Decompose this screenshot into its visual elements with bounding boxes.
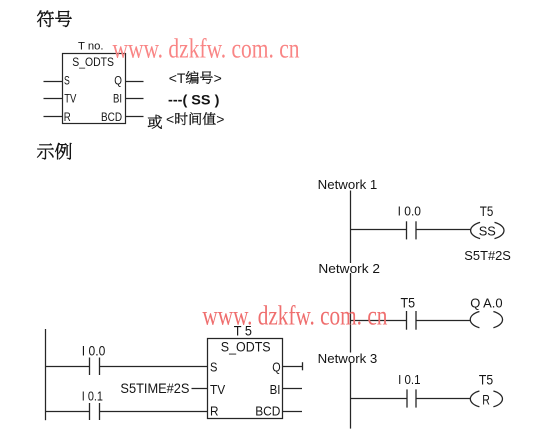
svg-text:S5TIME#2S: S5TIME#2S	[120, 381, 189, 396]
wire network3 rung left	[351, 398, 408, 400]
svg-text:>: >	[216, 111, 224, 127]
svg-text:<: <	[166, 111, 174, 127]
svg-text:BCD: BCD	[101, 110, 122, 124]
svg-text:Q: Q	[272, 360, 280, 375]
svg-text:I 0.1: I 0.1	[82, 389, 103, 404]
contact I0.0 (network1)	[406, 221, 408, 239]
wire rung to R input	[46, 411, 90, 413]
svg-text:TV: TV	[210, 382, 225, 397]
wire contact I0.0 to S pin	[100, 366, 208, 368]
svg-text:T5: T5	[401, 294, 416, 310]
wire network2 rung left	[351, 320, 407, 322]
svg-text:Q A.0: Q A.0	[470, 296, 502, 311]
timer block T5 S_ODTS (example)	[208, 339, 283, 419]
contact I0.1 (network3)	[406, 389, 408, 407]
wire BCD output stub	[126, 116, 144, 118]
svg-text:T5: T5	[480, 204, 494, 219]
coil R T5 (network3)	[470, 391, 479, 407]
svg-text:S: S	[64, 73, 70, 87]
contact I0.0 (example)	[89, 358, 91, 376]
svg-text:BI: BI	[270, 382, 281, 397]
coil SS T5 (network1)	[471, 222, 480, 238]
wire network2 rung right	[416, 320, 470, 322]
svg-text:I 0.0: I 0.0	[82, 344, 106, 359]
wire rung to S input	[46, 366, 90, 368]
label time value <时间值>	[166, 111, 224, 127]
wire network3 rung right	[416, 398, 470, 400]
svg-text:---( SS ): ---( SS )	[168, 93, 219, 108]
svg-text:Q: Q	[114, 73, 122, 87]
svg-text:<T: <T	[169, 70, 186, 86]
contact I0.1 (example)	[89, 403, 91, 420]
svg-text:www. dzkfw. com. cn: www. dzkfw. com. cn	[202, 300, 387, 331]
svg-text:>: >	[214, 70, 222, 86]
heading 符号	[37, 11, 71, 27]
wire TV input stub	[44, 98, 63, 100]
timer block U1 S_ODTS (symbol)	[63, 54, 126, 124]
svg-text:BCD: BCD	[255, 404, 280, 419]
svg-text:Network 2: Network 2	[318, 261, 380, 276]
wire Q output with terminal tick	[283, 366, 303, 368]
svg-text:I 0.0: I 0.0	[398, 203, 421, 218]
wire Q output stub	[126, 81, 144, 83]
wire power rail segment 2	[350, 273, 352, 353]
text 或 (or)	[148, 115, 162, 129]
svg-text:S5T#2S: S5T#2S	[464, 248, 511, 263]
svg-text:www. dzkfw. com. cn: www. dzkfw. com. cn	[113, 33, 300, 64]
coil Q A.0 (network2)	[470, 312, 479, 328]
svg-text:R: R	[64, 110, 71, 124]
svg-text:S: S	[210, 360, 218, 375]
svg-text:Network 3: Network 3	[318, 351, 378, 366]
svg-text:R: R	[210, 404, 219, 419]
svg-text:T no.: T no.	[78, 41, 104, 53]
wire S5TIME#2S to TV pin	[192, 388, 208, 390]
label T number <T编号>	[169, 70, 222, 86]
svg-text:S_ODTS: S_ODTS	[72, 55, 114, 69]
wire BI output stub	[283, 388, 303, 390]
svg-text:I 0.1: I 0.1	[398, 372, 420, 387]
wire network1 rung left	[351, 229, 407, 231]
svg-text:T5: T5	[479, 372, 493, 387]
wire R input stub	[44, 116, 63, 118]
svg-text:TV: TV	[64, 92, 77, 106]
svg-text:R: R	[482, 393, 490, 408]
wire network1 rung right	[416, 229, 471, 231]
svg-text:SS: SS	[479, 223, 496, 238]
svg-text:Network 1: Network 1	[318, 177, 378, 192]
wire left power rail	[45, 329, 47, 420]
wire contact I0.1 to R pin	[100, 411, 208, 413]
heading 示例	[37, 143, 71, 159]
wire power rail segment 3	[350, 363, 352, 429]
svg-text:BI: BI	[113, 92, 122, 106]
wire BCD output stub	[283, 411, 303, 413]
wire power rail segment 1	[350, 191, 352, 264]
wire BI output stub	[126, 98, 144, 100]
svg-text:S_ODTS: S_ODTS	[221, 340, 271, 355]
contact T5 (network2)	[406, 311, 408, 330]
wire S input stub	[44, 81, 63, 83]
